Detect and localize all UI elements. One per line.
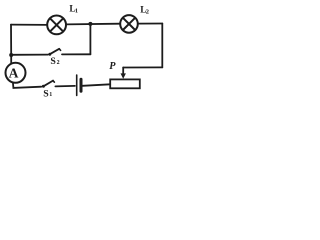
svg-text:S: S xyxy=(43,88,49,99)
wire rheostat to battery xyxy=(83,84,111,86)
battery cell xyxy=(77,75,81,95)
ammeter A xyxy=(6,63,26,83)
svg-text:1: 1 xyxy=(49,92,52,98)
wire battery to switch S1 xyxy=(55,85,75,88)
wire top-left horizontal xyxy=(11,24,47,26)
svg-text:S: S xyxy=(50,56,56,67)
svg-text:2: 2 xyxy=(146,8,149,15)
wire switch S1 to ammeter (bottom-left) xyxy=(13,83,41,88)
lamp L2 xyxy=(120,15,138,33)
rheostat P (slider arrow) xyxy=(121,68,126,79)
wire between lamps xyxy=(66,23,120,26)
lamp L1 xyxy=(47,16,66,35)
label L2 xyxy=(140,5,149,15)
wire ammeter top to junction xyxy=(10,55,12,63)
wire lamp L2 to top-right corner xyxy=(138,23,163,25)
rheostat P (resistor box) xyxy=(110,79,140,88)
wire riser to top junction xyxy=(89,24,91,54)
wire left vertical xyxy=(10,25,12,55)
wire right-bottom horizontal to slider xyxy=(123,66,162,68)
label S1 xyxy=(43,88,52,99)
label P xyxy=(109,61,116,72)
wire junction to switch S2 xyxy=(11,54,48,56)
label A (ammeter letter) xyxy=(9,65,19,80)
wire switch S2 to riser xyxy=(62,53,90,55)
svg-text:1: 1 xyxy=(75,8,78,15)
switch S2 xyxy=(48,49,60,56)
node junction top (middle wire tap) xyxy=(88,22,92,26)
label L1 xyxy=(69,5,78,15)
label S2 xyxy=(50,56,59,67)
svg-text:2: 2 xyxy=(57,60,60,66)
svg-text:A: A xyxy=(9,65,19,80)
node junction left xyxy=(9,53,13,57)
svg-text:P: P xyxy=(109,61,116,72)
switch S1 xyxy=(42,81,55,88)
wire right vertical xyxy=(161,24,163,68)
